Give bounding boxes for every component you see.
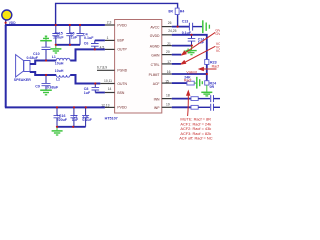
- capacitor C14 1uF: [188, 35, 205, 46]
- junction bottom ground rail / C7: [72, 126, 74, 128]
- annotation arrow Vplimit junction: [199, 68, 216, 71]
- ground below C14: [186, 46, 196, 55]
- svg-text:21: 21: [167, 42, 171, 46]
- svg-text:24,25: 24,25: [168, 29, 176, 33]
- capacitor C4 0.1uF: [77, 25, 95, 45]
- svg-text:GVDD: GVDD: [215, 32, 220, 36]
- svg-text:AGND: AGND: [150, 45, 160, 49]
- svg-text:R4: R4: [180, 9, 185, 13]
- ground below C9: [40, 90, 52, 95]
- svg-text:OUTN: OUTN: [117, 82, 127, 86]
- svg-text:0.1uF: 0.1uF: [84, 36, 94, 40]
- junction bottom ground rail / C16: [56, 126, 58, 128]
- annotation arrow GAIN: [182, 32, 215, 55]
- svg-text:PGND: PGND: [117, 69, 127, 73]
- svg-text:1: 1: [107, 36, 109, 40]
- capacitor C16 220uF: [54, 107, 68, 126]
- capacitor on INN: [211, 95, 214, 102]
- junction AGND / C14: [191, 45, 193, 47]
- svg-text:ACF: ACF: [153, 82, 160, 86]
- svg-text:C9: C9: [35, 85, 40, 89]
- svg-text:L2: L2: [56, 78, 60, 82]
- resistor Racf 24K: [184, 75, 194, 85]
- pin AVCC 26: [162, 26, 172, 28]
- pin OUTP 4,5: [105, 48, 115, 50]
- svg-text:Vplimit: Vplimit: [186, 71, 197, 75]
- svg-text:OUTP: OUTP: [117, 48, 127, 52]
- wire top loop from rail to resistor R4: [56, 3, 178, 25]
- wire INP input network: [172, 106, 191, 108]
- svg-text:16: 16: [167, 70, 171, 74]
- wire speaker bottom to L2: [30, 72, 56, 75]
- svg-text:26: 26: [168, 21, 172, 25]
- junction bank ground rail / C15: [55, 44, 57, 46]
- ground right of C13: [203, 20, 210, 33]
- wire GVDD to R23: [172, 35, 207, 60]
- resistor R4 8R: [168, 8, 184, 14]
- pin INN 18: [162, 98, 172, 100]
- pin AGND 21: [162, 45, 172, 47]
- svg-text:1uF: 1uF: [72, 118, 79, 122]
- capacitor C10 0.68uF: [27, 41, 51, 60]
- svg-text:15: 15: [165, 80, 169, 84]
- wire speaker top to L1: [30, 61, 56, 65]
- junction bottom rail / C16: [56, 106, 58, 108]
- svg-text:Racf: Racf: [212, 64, 219, 68]
- capacitor on INP: [211, 104, 214, 111]
- capacitor C15 220uF: [52, 25, 64, 45]
- ground above C10: [40, 36, 52, 41]
- resistor on INN: [191, 97, 198, 101]
- IC U1 HT517 body: [105, 20, 162, 121]
- power port VDD: [2, 10, 16, 25]
- note table Racf values: [179, 117, 213, 141]
- svg-text:19: 19: [166, 103, 170, 107]
- wire cap bank bottom rail: [56, 44, 80, 46]
- svg-text:17: 17: [167, 60, 171, 64]
- svg-text:0.68uF: 0.68uF: [27, 56, 39, 60]
- svg-text:BSP: BSP: [117, 39, 125, 43]
- capacitor C9 0.68uF: [35, 75, 59, 90]
- wire VDD left vertical rail: [5, 25, 7, 107]
- svg-text:VCC: VCC: [216, 49, 220, 53]
- svg-text:PLIMIT: PLIMIT: [149, 73, 160, 77]
- svg-text:GVDD: GVDD: [150, 34, 160, 38]
- junction at VDD port: [5, 22, 7, 24]
- inductor L2 10uH: [55, 69, 70, 82]
- svg-text:0R: 0R: [210, 85, 215, 89]
- junction OUTP wire / C10: [45, 59, 47, 61]
- junction OUTN wire / C9: [45, 74, 47, 76]
- pin PVDD 2,3: [105, 24, 115, 26]
- wire ACF to resistor Racf: [172, 82, 187, 84]
- svg-text:INN: INN: [154, 97, 160, 101]
- pin ACF 15: [162, 82, 172, 84]
- svg-text:20: 20: [166, 50, 170, 54]
- wire R4 to AVCC: [177, 15, 179, 27]
- svg-text:10uH: 10uH: [55, 62, 64, 66]
- wire BSP: [95, 39, 105, 41]
- wire L1 to OUTP: [70, 49, 105, 60]
- junction OUTP / C6: [94, 48, 96, 50]
- wire INN input network: [172, 98, 191, 100]
- svg-text:220uF: 220uF: [57, 118, 68, 122]
- pin GVDD 24,25: [162, 34, 172, 36]
- annotation arrow to Racf: [187, 91, 190, 116]
- svg-text:220uF: 220uF: [53, 35, 64, 39]
- capacitor C5 1uF: [66, 25, 78, 45]
- pin PGND 6,7,8,9: [97, 69, 115, 71]
- wire AVCC to C13: [172, 26, 189, 28]
- capacitor C8b 0.1uF: [82, 107, 92, 126]
- svg-text:PVDD: PVDD: [117, 23, 127, 27]
- svg-text:CTRL: CTRL: [151, 63, 160, 67]
- wire CTRL: [172, 63, 181, 65]
- svg-text:ACF off: Racf = NC: ACF off: Racf = NC: [179, 136, 213, 141]
- pin PLIMIT 16: [162, 73, 172, 75]
- svg-text:BSN: BSN: [117, 91, 125, 95]
- ground below cap bank: [50, 45, 61, 53]
- svg-text:1uF: 1uF: [84, 91, 91, 95]
- svg-text:L1: L1: [52, 55, 56, 59]
- wire VDD bottom rail to PVDD pin 12,13: [5, 106, 105, 108]
- junction top rail / C5: [69, 24, 71, 26]
- wire AGND: [172, 45, 192, 47]
- svg-text:8R: 8R: [168, 9, 173, 13]
- junction bank ground rail / C5: [69, 44, 71, 46]
- pin PVDD 12,13: [105, 106, 115, 108]
- junction top rail / loop riser: [55, 24, 57, 26]
- pin INP 19: [162, 106, 172, 108]
- junction bottom rail / C8b: [85, 106, 87, 108]
- speaker SPEAKER: [14, 55, 31, 83]
- svg-text:4,5: 4,5: [100, 46, 105, 50]
- junction top rail / C4: [79, 24, 81, 26]
- svg-text:0.1uF: 0.1uF: [82, 118, 92, 122]
- svg-text:INP: INP: [154, 106, 160, 110]
- capacitor C7 1uF: [70, 107, 79, 126]
- ground below bottom cap bank: [52, 127, 63, 135]
- svg-text:14: 14: [108, 87, 112, 91]
- capacitor C8 0.1uF bootstrap BSN: [84, 84, 99, 96]
- junction bottom rail / C7: [73, 106, 75, 108]
- ground at GAIN: [184, 49, 192, 54]
- svg-text:10uH: 10uH: [55, 69, 64, 73]
- pin OUTN 10,11: [100, 83, 114, 85]
- junction OUTN / C8: [94, 82, 96, 84]
- ground right of Racf: [194, 77, 202, 89]
- wire VDD top rail to PVDD pin 2,3: [5, 24, 105, 26]
- svg-text:Racf: Racf: [184, 79, 191, 83]
- wire L2 to OUTN: [70, 75, 100, 84]
- svg-text:10,11: 10,11: [104, 79, 112, 83]
- resistor R23: [205, 60, 217, 65]
- wire BSN: [95, 92, 105, 94]
- svg-text:6,7,8,9: 6,7,8,9: [97, 66, 107, 70]
- pin BSP 1: [105, 39, 115, 41]
- capacitor C13 0.1uF: [182, 19, 203, 35]
- ground below R24: [201, 85, 212, 96]
- svg-text:0.68uF: 0.68uF: [47, 86, 59, 90]
- svg-text:PVDD: PVDD: [117, 106, 127, 110]
- inductor L1 10uH: [52, 55, 70, 66]
- junction PLIMIT / R23 R24: [206, 73, 208, 75]
- svg-text:C6: C6: [84, 42, 89, 46]
- svg-text:12,13: 12,13: [101, 103, 109, 107]
- svg-text:C13: C13: [182, 19, 189, 23]
- resistor on INP: [191, 105, 198, 109]
- svg-text:18: 18: [166, 94, 170, 98]
- wire PLIMIT: [172, 73, 207, 75]
- svg-text:GAIN: GAIN: [151, 53, 160, 57]
- wire bottom cap bank rail: [57, 126, 86, 128]
- pin GAIN 20: [162, 54, 172, 56]
- pin BSN 14: [105, 92, 115, 94]
- svg-text:HT5107: HT5107: [105, 116, 118, 120]
- annotation arrow CTRL: [181, 46, 215, 64]
- svg-text:AVCC: AVCC: [150, 26, 160, 30]
- wire GAIN: [172, 54, 182, 56]
- resistor R24 0R: [205, 81, 216, 89]
- junction GVDD / C14: [190, 34, 192, 36]
- capacitor C6 0.1uF bootstrap BSP: [84, 40, 99, 49]
- pin CTRL 17: [162, 63, 172, 65]
- svg-text:SPEAKER: SPEAKER: [14, 78, 31, 82]
- wire R23 to junction to R24: [206, 65, 208, 81]
- junction AVCC / R4: [177, 26, 179, 28]
- svg-text:2,3: 2,3: [107, 20, 112, 24]
